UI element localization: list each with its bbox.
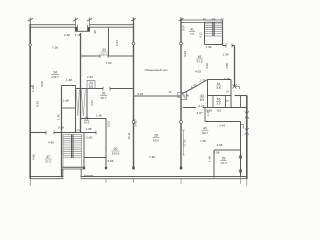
svg-text:3.28: 3.28	[206, 109, 212, 113]
wall y=107.5 across right cluster	[183, 107, 247, 109]
room label 37/37.3	[45, 155, 52, 164]
svg-text:65.6: 65.6	[153, 139, 159, 143]
door mark right wall lower	[245, 128, 249, 135]
left wall hinge circle	[29, 44, 31, 46]
svg-text:6.01: 6.01	[107, 121, 111, 127]
svg-text:6.96: 6.96	[107, 159, 113, 163]
svg-text:3.93: 3.93	[137, 92, 143, 96]
staircase NE landing bottom wall	[205, 44, 223, 46]
room label 30/109.8	[112, 147, 120, 156]
shaft duct triangle 2	[81, 90, 85, 116]
svg-text:1.10: 1.10	[31, 86, 35, 92]
bottom dimension ticks	[30, 179, 247, 186]
small lobby box left of cluster	[178, 93, 187, 100]
room label 44/3.5	[216, 82, 221, 90]
svg-text:Обеденный зал: Обеденный зал	[145, 68, 168, 72]
wire: east step wall y=95.5	[235, 95, 247, 97]
room label 40/89.7	[202, 127, 209, 136]
svg-text:3.16: 3.16	[74, 33, 80, 37]
window sill line	[84, 175, 93, 177]
svg-text:9.55: 9.55	[40, 81, 44, 87]
svg-text:4.11: 4.11	[199, 32, 203, 38]
svg-text:3.93: 3.93	[183, 51, 187, 57]
svg-text:19.1: 19.1	[101, 53, 107, 57]
entrance recess side walls	[63, 169, 81, 178]
svg-text:8.5: 8.5	[200, 98, 205, 102]
staircase SW shaft	[63, 135, 82, 168]
wire: NE horizontal wall y=45.5 with door gap	[223, 44, 235, 48]
svg-text:3.41: 3.41	[115, 40, 119, 46]
svg-text:6.5: 6.5	[89, 85, 94, 89]
svg-text:11: 11	[168, 90, 171, 94]
wire: interior wall y=132.5 with door gap	[30, 131, 96, 135]
svg-text:7.96: 7.96	[200, 139, 206, 143]
svg-text:3.20: 3.20	[198, 104, 204, 108]
svg-text:4.66: 4.66	[216, 143, 222, 147]
svg-text:1.78: 1.78	[224, 77, 230, 81]
door post square x=106	[105, 167, 107, 169]
column circle dining right bottom	[180, 121, 183, 124]
wire: interior wall y=157.5 small room	[84, 157, 106, 159]
svg-text:7.36: 7.36	[52, 46, 58, 50]
svg-text:1.48: 1.48	[66, 78, 72, 82]
svg-text:41: 41	[190, 28, 194, 32]
wire: interior wall y=118.5	[81, 118, 107, 120]
staircase NE shaft	[205, 22, 223, 36]
svg-text:1.68: 1.68	[63, 99, 69, 103]
wire: top outer wall right segment (double line)	[90, 25, 134, 28]
svg-text:1.96: 1.96	[205, 45, 211, 49]
column circle dining left top	[132, 42, 135, 45]
svg-text:17.31: 17.31	[183, 139, 187, 147]
wire: wall x=133.5 (dining hall left)	[131, 18, 136, 170]
svg-text:30: 30	[114, 147, 118, 151]
staircase SW bottom wall (double)	[62, 167, 85, 169]
wire: NE block right wall upper	[222, 20, 224, 45]
svg-text:89.7: 89.7	[202, 131, 208, 135]
small wc room box 24	[87, 81, 95, 89]
svg-text:46: 46	[198, 55, 202, 59]
wall x=207.5	[207, 80, 209, 108]
door bracket on x=240.5	[241, 125, 244, 129]
node: top-left corner tick	[28, 18, 34, 25]
room label 46/97.8	[196, 55, 203, 64]
svg-text:4.93: 4.93	[195, 70, 201, 74]
wire: entrance niche left wall	[73, 18, 78, 32]
wire: bottom outer wall (double)	[30, 177, 247, 179]
svg-text:3.5: 3.5	[216, 86, 221, 90]
room label 33/19.1	[101, 48, 108, 57]
svg-text:40: 40	[203, 127, 207, 131]
wire: east wall upper x=234.5	[234, 46, 236, 87]
wall x=240.5 upper	[240, 96, 242, 108]
room label 39/14.3	[220, 157, 226, 166]
staircase NE left wall	[204, 22, 206, 45]
hall 46 chamfer diagonal	[183, 80, 208, 94]
wall y=121.5 room40 top	[205, 121, 241, 123]
wall y=95.5	[208, 95, 232, 97]
wire: NE block top wall (double)	[181, 20, 223, 22]
svg-text:4.90: 4.90	[48, 141, 54, 145]
svg-text:4.60: 4.60	[32, 154, 36, 160]
svg-text:9.87: 9.87	[182, 25, 186, 31]
svg-text:1.75: 1.75	[199, 79, 205, 83]
svg-text:1.40: 1.40	[57, 114, 61, 120]
door post square x=84	[83, 167, 85, 169]
room 39 left wall	[213, 150, 215, 178]
wire: left outer wall	[29, 24, 31, 179]
wall x=213 small wc divider	[212, 96, 214, 108]
wire: entrance niche bottom wall	[75, 30, 89, 32]
svg-text:109.8: 109.8	[112, 152, 120, 156]
wire: interior wall y=56 below room 33	[81, 54, 134, 58]
room label 28/65.6	[153, 134, 160, 143]
svg-text:97.8: 97.8	[196, 60, 202, 64]
svg-text:7.46: 7.46	[149, 155, 155, 159]
column circle dining left bottom	[132, 121, 135, 124]
room label 41/7.2	[189, 28, 195, 37]
door post square on x=240.5	[239, 156, 242, 159]
stair vertical top ticks	[203, 18, 224, 20]
wall x=231	[230, 80, 232, 108]
room 39 top wall	[214, 149, 241, 151]
svg-text:1.48: 1.48	[64, 33, 70, 37]
shaft duct triangle 1	[76, 90, 79, 116]
svg-text:37.3: 37.3	[45, 160, 51, 164]
room label 43/8.5	[200, 94, 205, 102]
svg-text:3.98: 3.98	[183, 94, 189, 98]
wire: interior wall y=85.5 small rooms top	[62, 85, 76, 87]
wall x=205 short	[204, 108, 206, 122]
wire: entrance niche right wall	[87, 18, 92, 32]
svg-text:1.98: 1.98	[222, 53, 228, 57]
wire: interior wall x=108.5 between rooms 33	[108, 27, 110, 56]
room label 26/40.7	[100, 92, 107, 101]
svg-text:0.5: 0.5	[217, 109, 222, 113]
svg-text:39: 39	[222, 157, 226, 161]
svg-text:98: 98	[93, 30, 97, 34]
svg-text:3.07: 3.07	[196, 111, 202, 115]
wire: interior wall x=75.5	[75, 86, 77, 133]
wire: interior wall x=80.5 corridor left	[80, 33, 82, 133]
svg-text:33: 33	[102, 48, 106, 52]
wire: interior wall x=61.5	[61, 86, 63, 178]
wire: interior wall x=84 stairs right	[83, 133, 85, 170]
wire: small room divider y=108	[62, 107, 76, 109]
svg-text:26: 26	[102, 92, 106, 96]
wall x=225.5 small wc	[225, 96, 227, 108]
svg-text:1.66: 1.66	[208, 156, 212, 162]
svg-text:2.42: 2.42	[87, 75, 93, 79]
svg-text:4.85: 4.85	[225, 63, 229, 69]
svg-text:7.2: 7.2	[190, 32, 195, 36]
column circle dining right top	[180, 42, 183, 45]
wire: shaft wall x=87	[86, 89, 88, 119]
svg-text:34: 34	[53, 71, 57, 75]
svg-text:14.07: 14.07	[134, 119, 138, 127]
svg-text:1.66: 1.66	[96, 114, 102, 118]
dim line room40 left	[182, 130, 184, 155]
svg-text:2.96: 2.96	[213, 151, 219, 155]
svg-text:1.10: 1.10	[75, 130, 80, 132]
svg-text:10.11: 10.11	[127, 132, 131, 140]
svg-text:3.44: 3.44	[219, 124, 225, 128]
svg-text:7.90: 7.90	[105, 61, 111, 65]
svg-text:28: 28	[154, 134, 158, 138]
svg-text:14.5: 14.5	[83, 121, 89, 125]
svg-text:2.08: 2.08	[86, 136, 92, 140]
svg-text:4.57: 4.57	[90, 100, 94, 106]
wall y=79.5 small rooms top right	[208, 79, 232, 81]
door cross at end of east wall upper	[233, 85, 240, 90]
svg-text:40.7: 40.7	[100, 96, 106, 100]
svg-text:132.7: 132.7	[51, 75, 59, 79]
dining hall divider wall y=96	[134, 95, 182, 97]
wire: interior wall y=88.5 with door gap	[76, 87, 134, 91]
svg-text:14.3: 14.3	[220, 161, 226, 165]
wire: right outer wall	[246, 96, 248, 180]
wall x=240.5	[240, 122, 242, 178]
wire: wall x=181 (dining hall right)	[179, 18, 184, 170]
left wall junction tick	[30, 85, 34, 87]
svg-text:3.5: 3.5	[216, 102, 221, 106]
room label 24/6.5	[89, 81, 94, 89]
svg-text:1.98: 1.98	[85, 127, 91, 131]
svg-text:5.48: 5.48	[58, 126, 64, 130]
room label 45/3.5	[216, 98, 221, 106]
svg-text:37: 37	[46, 155, 50, 159]
door cross on right wall upper	[245, 111, 249, 119]
svg-text:4.66: 4.66	[205, 63, 209, 69]
wire: top outer wall left segment (double line)	[30, 25, 76, 28]
wire: interior wall x=106 room 30 left	[105, 119, 107, 170]
svg-text:9.54: 9.54	[36, 101, 40, 107]
room label 34/132.7	[51, 71, 59, 80]
room label 28/14.5	[83, 117, 89, 125]
